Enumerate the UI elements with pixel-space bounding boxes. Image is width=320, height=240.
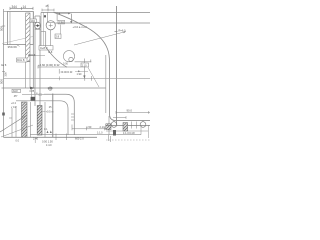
label box +2.10 DW [81,63,89,67]
right short vertical [140,125,142,134]
leader across arc [74,32,126,46]
inner top line [55,22,150,24]
marks on vertical [71,114,74,120]
svg-text:45°: 45° [14,95,18,98]
dim ticks [10,7,33,10]
svg-text:0w 8: 0w 8 [1,64,7,67]
right edge of rect continues down [32,12,34,89]
annotation row below drain [58,69,60,74]
svg-text:0.50 1.50: 0.50 1.50 [42,140,53,144]
manhole cross [49,23,53,27]
bolt circle 1 [111,122,117,128]
svg-text:0.0: 0.0 [16,140,20,143]
small dim arrows mid top [58,13,71,15]
T tick 2 [90,60,92,63]
slope line upper [0,116,26,133]
footing hatched strip [22,102,28,137]
svg-text:2.8: 2.8 [56,35,60,39]
tick on x12 [9,117,12,119]
label box near circle [58,20,65,24]
svg-text:0.1: 0.1 [44,128,48,131]
pipe tie from valve [41,31,46,33]
svg-text:R=6.0: R=6.0 [119,29,127,33]
svg-text:2.13: 2.13 [100,125,106,129]
leader from box down [88,68,99,88]
bottom-right dim line 90.0 [116,111,150,113]
label box left of circle [55,34,61,39]
svg-text:+0 4: +0 4 [11,102,17,105]
tick on border y26 [2,25,5,27]
svg-text:1:4.0: 1:4.0 [46,144,52,147]
bolt circle 2 [140,122,146,128]
left border vertical line [3,9,5,137]
svg-text:1.90: 1.90 [77,73,82,76]
pipe elbow vertical [45,32,47,48]
dark flange strip [37,106,42,136]
svg-text:14: 14 [23,5,27,9]
vertical at 57 [56,12,58,20]
svg-text:1:1.0 D.W.: 1:1.0 D.W. [123,131,135,135]
dim line +2.60 [38,66,81,68]
stem from box1 to box2 [59,25,61,34]
tick over border H8 [2,87,4,89]
top edge tick to border [4,11,8,13]
svg-text:344: 344 [12,5,18,9]
hatched wall strip upper [26,13,30,62]
inner wall face vertical [105,55,107,113]
svg-text:±0.00 D.W.: ±0.00 D.W. [61,71,74,74]
horizontal line y95 [22,93,44,95]
level arrow +3.0 [70,14,72,23]
valve cross [35,25,41,27]
bottom dim line [72,128,108,130]
outer wall arc [54,12,151,120]
drain symbol big circle [63,51,74,62]
svg-text:1.50: 1.50 [86,125,92,129]
dark section block [31,97,36,101]
svg-text:2.40: 2.40 [33,137,39,141]
tank wall rectangle outer [7,12,33,45]
small arrows near pipe bottom [47,131,52,134]
svg-text:90.0: 90.0 [127,108,133,112]
step verticals [40,12,42,48]
svg-text:359.69: 359.69 [8,45,18,49]
svg-text:D-8: D-8 [48,51,53,54]
left bottom dashes [109,135,111,142]
svg-text:1.50: 1.50 [48,87,53,90]
pipe elbow arc [46,47,67,67]
bottom right corner vertical [108,116,110,135]
filled arrow on floor line [30,87,35,90]
tick on floor line [59,76,61,80]
svg-text:0.85: 0.85 [30,90,35,93]
step line 350x8 [28,55,45,57]
svg-text:+0.5 m: +0.5 m [46,110,54,114]
svg-text:350x8: 350x8 [28,53,36,57]
svg-text:2.10: 2.10 [82,64,87,67]
dashed edge bottom right [106,139,150,141]
drain drop pipe vertical [52,94,54,138]
T tick 1 [83,59,85,63]
svg-text:+2.60 (0.00) D.W.: +2.60 (0.00) D.W. [38,63,60,67]
circle stem down [50,30,52,46]
strip continuation lines [25,62,27,89]
footing vertical right [30,102,32,137]
hatched block between bolts [123,123,128,131]
drain symbol small circle [69,57,73,61]
tick on section line [115,31,118,33]
small dim above step [42,9,54,11]
diagonal leader in rect [2,37,33,44]
slope line lower [1,125,33,137]
long level line y78 [4,77,151,79]
svg-text:1:1.0: 1:1.0 [97,131,103,134]
section line vertical [116,6,118,126]
bottom line second [30,134,141,136]
label box A0/2 [12,89,21,92]
double circle symbol [49,87,53,91]
wall top curve lower-left basin [44,94,74,134]
drop pipe vertical [83,62,85,75]
dark mark 1 [106,124,111,130]
big circle manhole [46,21,55,30]
tick with text 5 [47,4,49,10]
label box Dim8 [17,58,28,62]
svg-text:508: 508 [0,26,4,31]
small dark mark [44,15,46,17]
label box 194 [30,19,37,22]
second dim [113,117,126,119]
svg-text:194: 194 [31,19,36,23]
long floor line [4,87,106,89]
bottom right main line [106,124,150,126]
label box D8 [39,46,53,50]
svg-text:A0/2: A0/2 [13,90,19,93]
dark tick on border [2,113,5,116]
top long line outer [41,11,150,13]
svg-text:v 0.2: v 0.2 [11,106,17,109]
valve ellipse on pipe [35,22,41,29]
svg-text:350: 350 [4,72,8,77]
small dim above floor right [91,76,93,81]
pipe line right of drain [75,61,92,63]
tick marks near 359 [17,45,20,47]
footing verticals [11,108,13,137]
ticks below line [132,122,137,129]
pipe pair vertical [34,16,36,106]
bottom line main [4,136,98,138]
svg-text:0.00: 0.00 [63,63,68,66]
manhole stem [47,12,49,22]
pipe top tick [35,15,40,17]
rect bottom extension to border [3,44,7,46]
tick under valve [35,28,41,30]
svg-text:500: 500 [0,79,4,84]
svg-text:25: 25 [46,4,50,8]
basin wall outer face [16,101,68,135]
svg-text:Dim 8: Dim 8 [17,58,25,62]
leader below arrow [31,88,33,97]
svg-text:600 2.0: 600 2.0 [75,137,84,141]
tank wall inner left line [9,12,11,45]
dark mark 2 [113,130,116,136]
bottom line right [106,130,148,132]
top dimension line [10,7,33,9]
